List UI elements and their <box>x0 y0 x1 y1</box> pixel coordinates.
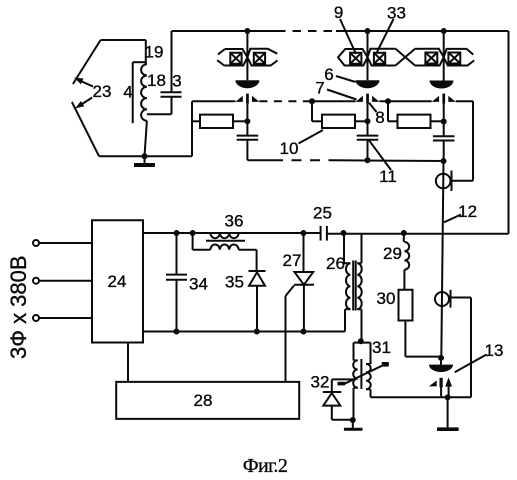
svg-text:4: 4 <box>123 83 132 102</box>
svg-text:26: 26 <box>326 254 345 273</box>
svg-text:24: 24 <box>108 272 127 291</box>
svg-text:32: 32 <box>311 373 330 392</box>
svg-text:6: 6 <box>324 65 333 84</box>
svg-text:19: 19 <box>145 43 164 62</box>
svg-text:Фиг.2: Фиг.2 <box>243 455 287 477</box>
svg-text:8: 8 <box>375 108 384 127</box>
svg-text:3Ф х 380В: 3Ф х 380В <box>6 255 31 359</box>
svg-text:36: 36 <box>225 212 244 231</box>
svg-text:31: 31 <box>372 338 391 357</box>
svg-text:9: 9 <box>334 3 343 22</box>
svg-text:23: 23 <box>93 82 112 101</box>
svg-text:3: 3 <box>172 72 181 91</box>
svg-text:28: 28 <box>194 391 213 410</box>
svg-text:33: 33 <box>387 4 406 23</box>
svg-text:7: 7 <box>315 79 324 98</box>
svg-text:18: 18 <box>147 71 166 90</box>
svg-text:25: 25 <box>313 204 332 223</box>
svg-text:30: 30 <box>377 289 396 308</box>
svg-text:35: 35 <box>225 273 244 292</box>
svg-text:12: 12 <box>458 202 477 221</box>
svg-text:34: 34 <box>189 275 208 294</box>
svg-text:11: 11 <box>379 167 397 186</box>
svg-text:13: 13 <box>485 341 504 360</box>
svg-text:27: 27 <box>283 251 302 270</box>
svg-text:29: 29 <box>383 244 402 263</box>
svg-text:10: 10 <box>280 139 299 158</box>
